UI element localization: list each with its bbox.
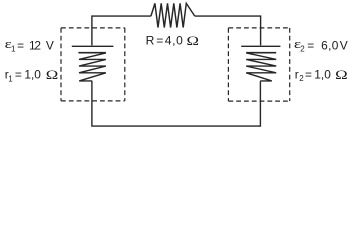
- battery E2 long plate: [241, 45, 280, 47]
- wire: top-left segment from node above E1 to resistor R: [92, 16, 151, 45]
- internal resistance r1 coil: [79, 53, 106, 81]
- battery cell 2 dashed enclosure: top edge: [228, 27, 289, 29]
- battery cell 2 dashed enclosure: left edge: [227, 28, 229, 101]
- svg-text:1,0: 1,0: [24, 68, 41, 82]
- svg-text:=: =: [307, 39, 314, 53]
- battery cell 2 dashed enclosure: bottom edge: [228, 100, 289, 102]
- resistor R zigzag: [151, 3, 195, 27]
- svg-text:1: 1: [11, 44, 16, 53]
- battery E1 long plate: [72, 45, 114, 47]
- svg-text:=: =: [305, 68, 312, 82]
- battery cell 1 dashed enclosure: right edge: [124, 28, 126, 101]
- svg-text:R: R: [146, 34, 155, 48]
- svg-text:V: V: [340, 39, 348, 53]
- svg-text:1: 1: [8, 74, 13, 83]
- internal resistance r2 coil (mirrored): [246, 53, 276, 81]
- svg-text:=: =: [15, 68, 22, 82]
- svg-text:Ω: Ω: [46, 69, 59, 82]
- svg-text:1,0: 1,0: [314, 68, 331, 82]
- battery cell 1 dashed enclosure: left edge: [60, 28, 62, 101]
- battery cell 1 dashed enclosure: top edge: [61, 27, 125, 29]
- wire: top-right segment from resistor R to node above E2: [195, 16, 261, 45]
- svg-text:V: V: [46, 39, 54, 53]
- svg-text:12: 12: [29, 39, 41, 53]
- svg-text:=: =: [17, 39, 24, 53]
- svg-text:6,0: 6,0: [321, 39, 339, 53]
- wire: bottom loop connecting both cells: [92, 81, 261, 126]
- battery E2 short plate / coil top: [246, 52, 276, 54]
- svg-text:r: r: [295, 68, 299, 82]
- svg-text:4,0: 4,0: [165, 34, 184, 48]
- battery cell 1 dashed enclosure: bottom edge: [61, 100, 125, 102]
- battery cell 2 dashed enclosure: right edge: [289, 28, 291, 101]
- svg-text:=: =: [156, 34, 163, 48]
- svg-text:2: 2: [300, 44, 305, 53]
- svg-text:2: 2: [299, 74, 304, 83]
- svg-text:Ω: Ω: [335, 69, 348, 82]
- battery E1 short plate / coil top: [78, 52, 106, 54]
- svg-text:Ω: Ω: [187, 35, 200, 48]
